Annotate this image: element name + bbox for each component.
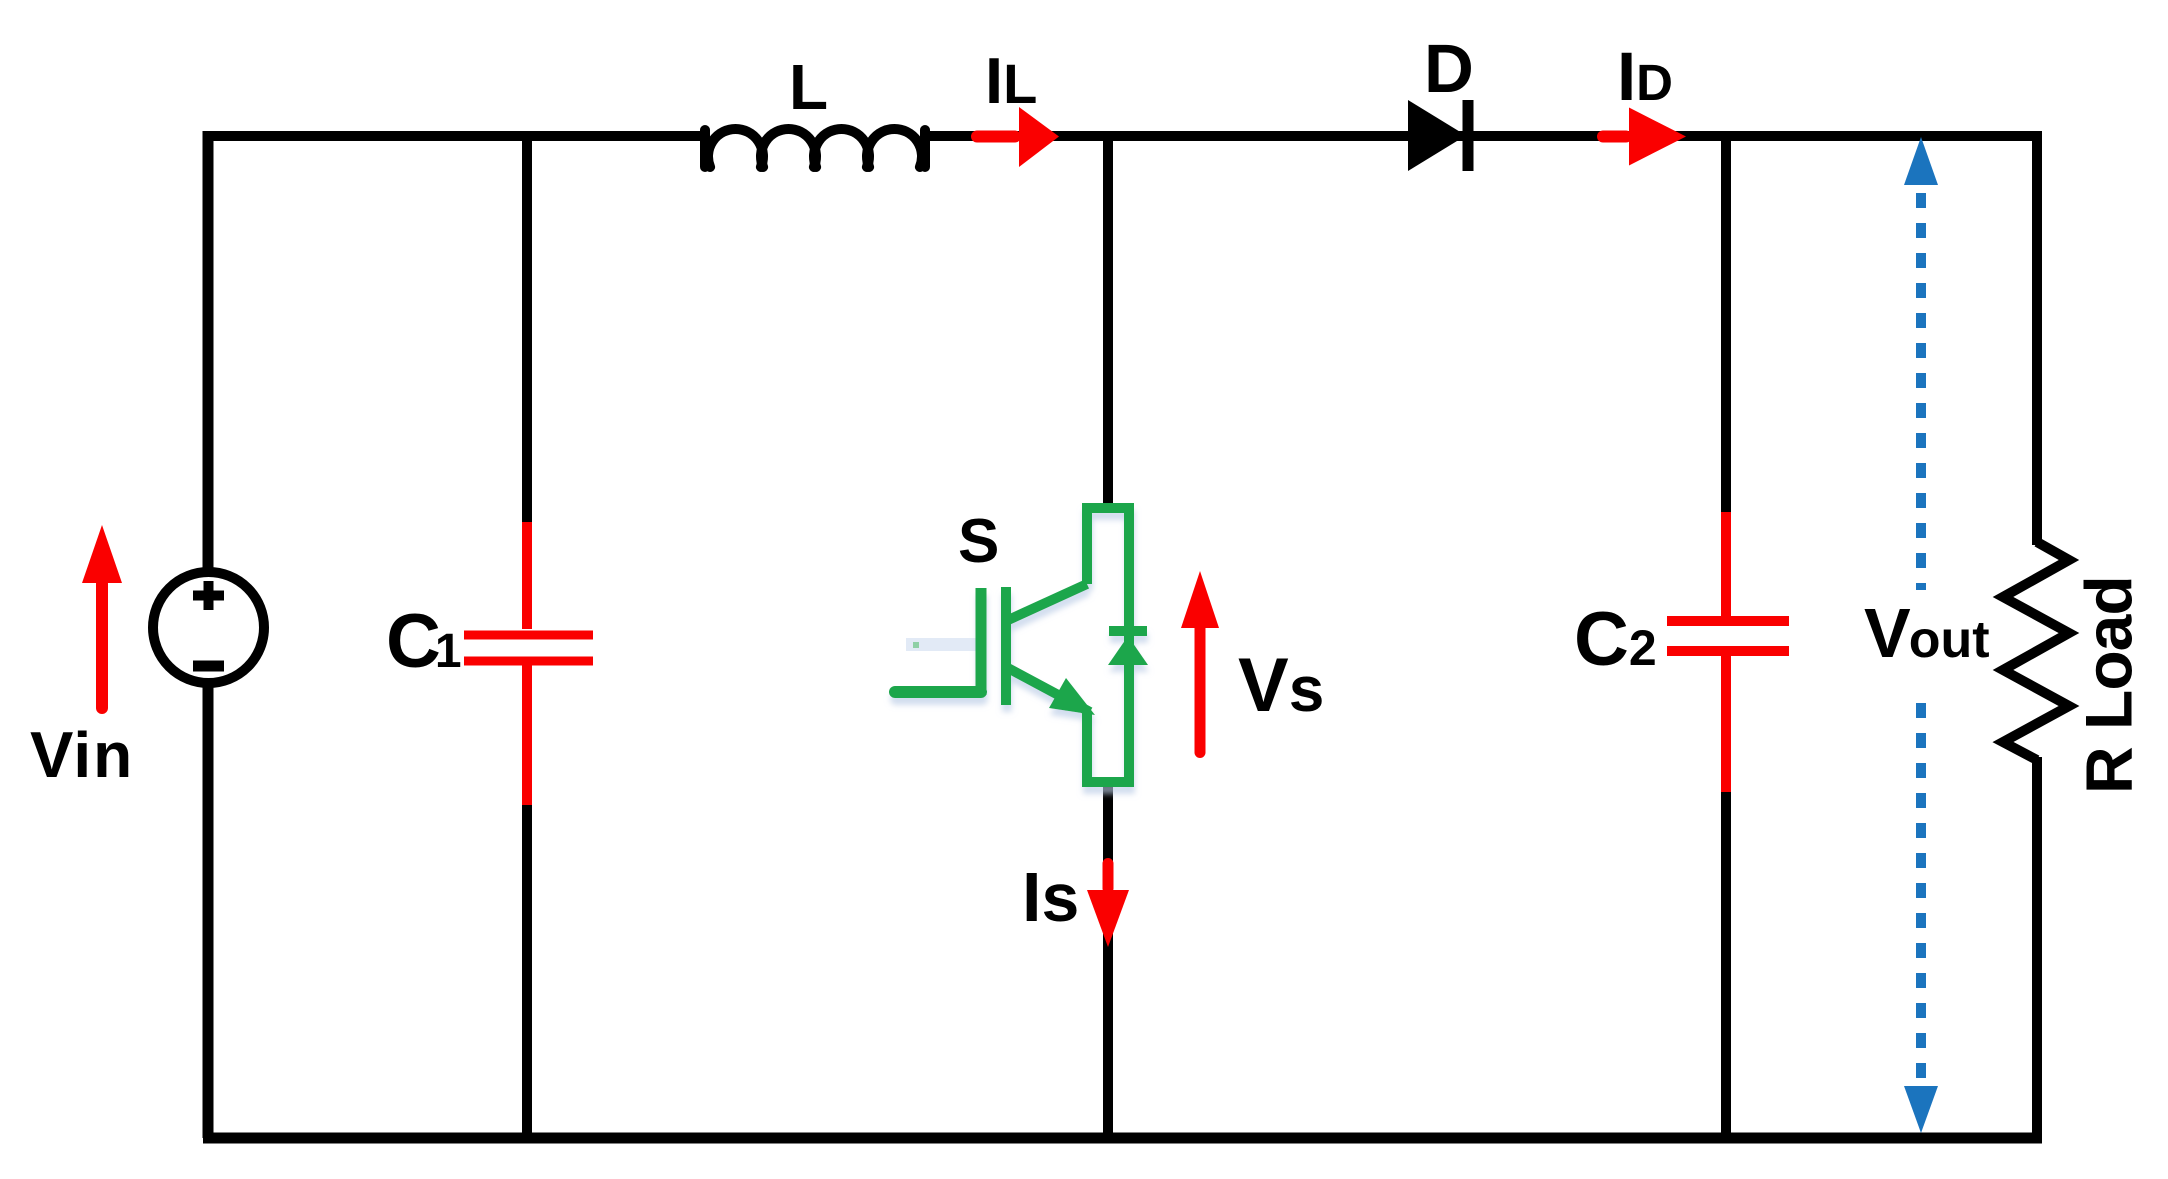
svg-text:C1: C1 [386, 599, 462, 684]
svg-text:R Load: R Load [2072, 576, 2146, 794]
IGBT collector diagonal [1006, 584, 1087, 621]
wire right rail lower [2032, 757, 2042, 1143]
arrow ID (red, right) [1597, 108, 1686, 166]
svg-text:IL: IL [985, 44, 1037, 117]
wire left rail lower [203, 683, 214, 1138]
capacitor C1 bottom lead red [522, 665, 532, 805]
arrow IL (red, right) [971, 107, 1059, 167]
wire bottom rail [203, 1133, 2042, 1144]
IGBT internal diode triangle [1108, 636, 1148, 665]
IGBT emitter diagonal [1006, 667, 1090, 712]
capacitor C1 bottom lead black [522, 805, 532, 1138]
svg-text:Vin: Vin [30, 718, 134, 791]
capacitor C2 top lead black [1721, 131, 1731, 515]
voltage source plus sign [193, 581, 224, 610]
IGBT internal diode bar [1109, 626, 1147, 636]
capacitor C2 bottom lead black [1721, 792, 1731, 1138]
node wire: switch branch upper black [1103, 136, 1113, 506]
svg-text:S: S [958, 507, 999, 576]
switch branch lower black [1103, 784, 1113, 1138]
svg-text:L: L [789, 51, 828, 123]
wire top rail right segment [924, 131, 2042, 141]
capacitor C1 plates [464, 635, 593, 661]
svg-text:C2: C2 [1574, 597, 1657, 682]
capacitor C1 top lead black [522, 131, 532, 525]
inductor L [705, 129, 925, 167]
capacitor C2 bottom lead red [1721, 656, 1731, 792]
capacitor C1 top lead red [522, 522, 532, 629]
arrow Vs (red, up) [1181, 571, 1219, 758]
svg-text:D: D [1424, 30, 1474, 107]
IGBT gate lead [895, 686, 981, 698]
arrow Vin (red, up) [82, 525, 122, 714]
arrow Is (red, down) [1087, 858, 1129, 947]
resistor R Load zigzag [2003, 542, 2069, 760]
capacitor C2 plates [1667, 621, 1789, 651]
diode D cathode bar [1463, 100, 1474, 171]
artifact smudge near gate [906, 638, 978, 651]
svg-text:ID: ID [1617, 38, 1673, 115]
IGBT gate bar [976, 588, 987, 695]
wire top rail left segment [208, 131, 706, 141]
IGBT emitter arrowhead [1049, 678, 1095, 715]
svg-text:Vout: Vout [1864, 594, 1990, 672]
capacitor C2 top lead red [1721, 512, 1731, 616]
wire left rail upper [203, 131, 214, 572]
diode D triangle [1408, 100, 1466, 171]
IGBT collector-emitter loop [1087, 508, 1129, 782]
voltage source minus sign [193, 661, 224, 672]
arrow Vout (blue dashed double arrow) [1916, 193, 1926, 1086]
IGBT S (green) [895, 508, 1148, 782]
svg-text:Is: Is [1022, 858, 1079, 936]
voltage source V1 circle [153, 572, 264, 683]
IGBT body bar [1001, 587, 1011, 705]
wire right rail upper [2032, 131, 2042, 545]
svg-text:Vs: Vs [1238, 643, 1324, 728]
